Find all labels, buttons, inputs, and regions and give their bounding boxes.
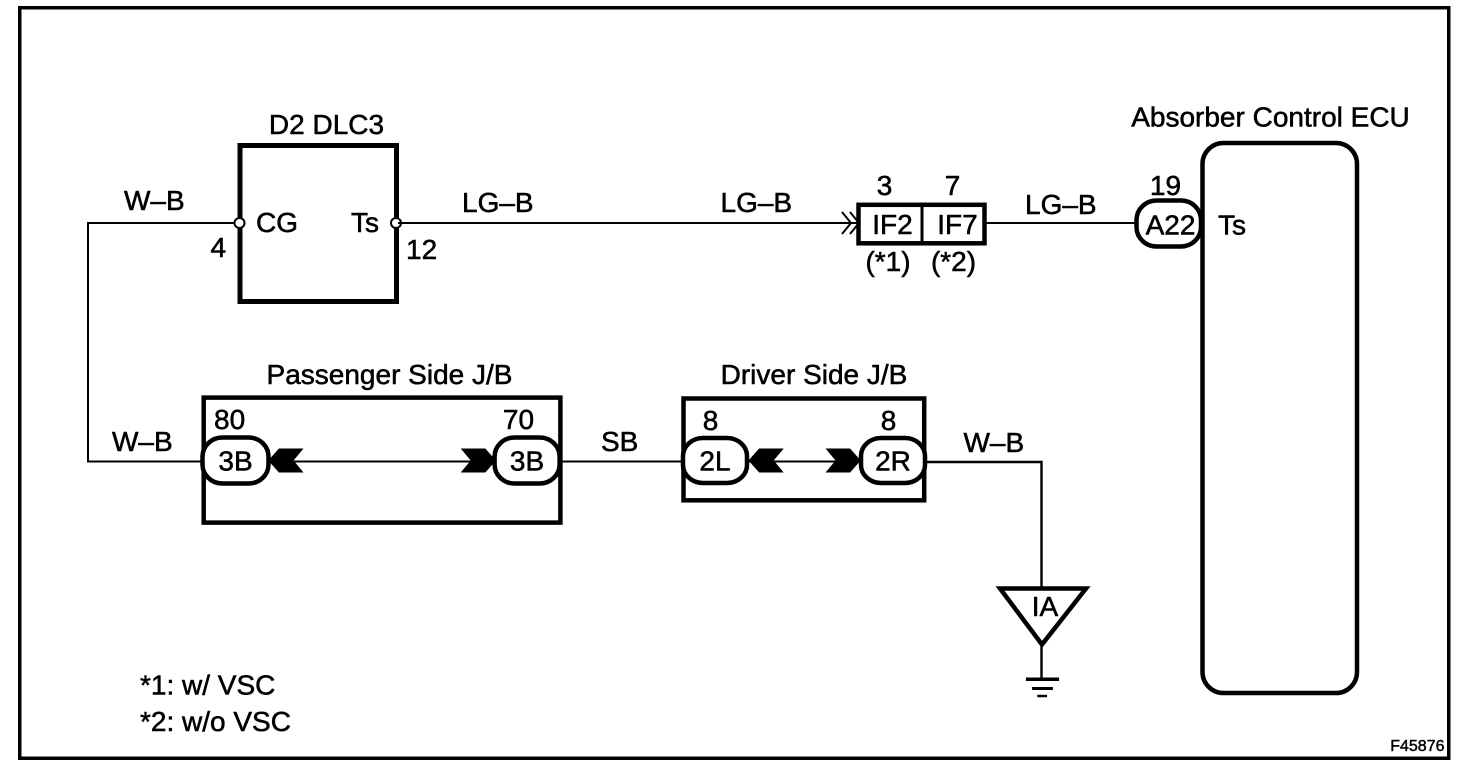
svg-text:80: 80 xyxy=(214,404,245,435)
divider between IF2 and IF7 xyxy=(921,205,924,244)
ground bar 3 xyxy=(1037,695,1047,698)
arrow left (passenger) xyxy=(268,449,303,473)
svg-text:W–B: W–B xyxy=(964,427,1025,458)
svg-text:3: 3 xyxy=(877,170,893,201)
svg-text:(*2): (*2) xyxy=(931,246,976,277)
svg-text:CG: CG xyxy=(256,207,298,238)
svg-text:W–B: W–B xyxy=(112,426,173,457)
ground bar 2 xyxy=(1032,687,1053,690)
svg-text:(*1): (*1) xyxy=(865,246,910,277)
arrow right (driver) xyxy=(826,449,861,473)
wire inside Driver J/B xyxy=(715,461,893,463)
svg-text:4: 4 xyxy=(211,232,227,263)
junction block Passenger Side J/B xyxy=(204,398,561,523)
svg-text:Driver Side J/B: Driver Side J/B xyxy=(721,359,908,390)
svg-text:IA: IA xyxy=(1032,591,1059,622)
svg-text:*1: w/ VSC: *1: w/ VSC xyxy=(140,670,275,701)
ground stem wire xyxy=(1040,643,1042,679)
connector 2R oval xyxy=(861,438,925,483)
pin circle CG xyxy=(235,218,245,228)
svg-text:IF7: IF7 xyxy=(937,209,977,240)
svg-text:12: 12 xyxy=(406,234,437,265)
svg-text:2R: 2R xyxy=(875,446,911,477)
wire SB between J/Bs xyxy=(560,461,685,463)
connector A22 oval xyxy=(1137,201,1202,247)
svg-text:3B: 3B xyxy=(218,446,252,477)
splice chevron marks xyxy=(842,212,851,234)
connector D2 DLC3 box xyxy=(240,146,397,302)
svg-text:LG–B: LG–B xyxy=(721,187,793,218)
svg-text:Ts: Ts xyxy=(1218,210,1246,241)
svg-text:IF2: IF2 xyxy=(872,209,912,240)
wire W-B from DLC3 CG pin down to Passenger J/B 3B xyxy=(88,223,236,462)
wire LG-B from IF7 to A22 xyxy=(986,222,1140,224)
wire LG-B from Ts to IF2 xyxy=(398,222,858,224)
wire W-B from 2R down to ground xyxy=(925,462,1042,588)
svg-text:A22: A22 xyxy=(1146,210,1196,241)
ground bar 1 xyxy=(1026,678,1059,682)
svg-text:19: 19 xyxy=(1150,170,1181,201)
connector 2L oval xyxy=(683,438,747,483)
svg-text:*2: w/o VSC: *2: w/o VSC xyxy=(140,706,291,737)
svg-text:D2 DLC3: D2 DLC3 xyxy=(269,109,384,140)
svg-text:Passenger Side J/B: Passenger Side J/B xyxy=(267,359,513,390)
svg-text:Ts: Ts xyxy=(351,207,379,238)
svg-text:8: 8 xyxy=(703,405,719,436)
connector 3B oval (right, pin 70) xyxy=(495,438,560,484)
svg-text:LG–B: LG–B xyxy=(462,187,534,218)
svg-text:Absorber Control ECU: Absorber Control ECU xyxy=(1131,102,1410,133)
svg-text:2L: 2L xyxy=(699,446,730,477)
wire inside Passenger J/B xyxy=(235,461,527,463)
svg-text:W–B: W–B xyxy=(124,185,185,216)
ground triangle IA xyxy=(1000,589,1086,645)
pin circle Ts xyxy=(391,218,401,228)
arrow right (passenger) xyxy=(461,449,496,473)
connector IF2/IF7 box xyxy=(859,205,985,244)
arrow left (driver) xyxy=(749,449,784,473)
svg-text:70: 70 xyxy=(503,404,534,435)
svg-text:LG–B: LG–B xyxy=(1025,189,1097,220)
junction block Driver Side J/B xyxy=(684,399,925,501)
svg-text:F45876: F45876 xyxy=(1390,738,1444,755)
svg-text:SB: SB xyxy=(601,426,638,457)
connector 3B oval (left, pin 80) xyxy=(203,438,269,484)
ECU box Absorber Control ECU xyxy=(1203,143,1358,693)
svg-text:7: 7 xyxy=(945,170,961,201)
svg-text:3B: 3B xyxy=(510,446,544,477)
svg-text:8: 8 xyxy=(881,405,897,436)
